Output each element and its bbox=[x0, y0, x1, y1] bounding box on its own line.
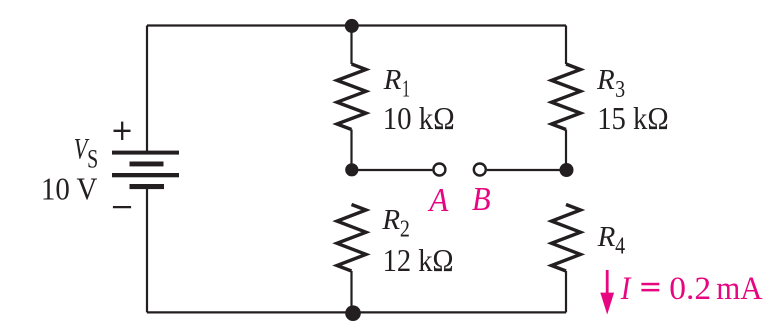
svg-text:R: R bbox=[597, 221, 616, 253]
junction dot bottom middle bbox=[345, 305, 361, 321]
svg-text:10 kΩ: 10 kΩ bbox=[383, 100, 455, 136]
wire middle branch top bbox=[350, 26, 352, 65]
resistor R1 zigzag bbox=[337, 64, 366, 130]
label R3 bbox=[596, 64, 625, 103]
wire R1 to node bbox=[350, 130, 352, 171]
label R1 bbox=[383, 64, 410, 102]
svg-text:I: I bbox=[620, 271, 632, 307]
resistor R3 zigzag bbox=[552, 64, 581, 130]
current arrow I bbox=[600, 270, 614, 315]
wire bottom rail bbox=[147, 311, 566, 313]
terminal A open circle bbox=[433, 164, 445, 176]
svg-text:B: B bbox=[472, 181, 491, 218]
svg-text:S: S bbox=[87, 145, 98, 174]
battery plus sign bbox=[114, 122, 131, 140]
wire terminal B to right branch bbox=[487, 169, 566, 171]
svg-text:15 kΩ: 15 kΩ bbox=[597, 100, 669, 136]
label R4 bbox=[597, 221, 626, 260]
wire left branch lower bbox=[146, 188, 148, 312]
junction dot top middle bbox=[345, 19, 359, 33]
resistor R4 zigzag bbox=[552, 205, 581, 272]
svg-text:R: R bbox=[596, 64, 615, 96]
wire R2 to bottom rail bbox=[350, 271, 352, 312]
junction dot middle node bbox=[345, 163, 358, 176]
svg-text:12 kΩ: 12 kΩ bbox=[383, 242, 454, 278]
svg-text:1: 1 bbox=[402, 76, 410, 102]
svg-text:R: R bbox=[383, 64, 402, 96]
label VS bbox=[74, 133, 99, 174]
svg-text:mA: mA bbox=[716, 271, 762, 307]
resistor R2 zigzag bbox=[337, 205, 366, 272]
svg-text:2: 2 bbox=[400, 217, 410, 243]
wire node to terminal A bbox=[352, 169, 433, 171]
battery VS plates bbox=[112, 151, 179, 190]
svg-text:A: A bbox=[428, 182, 449, 219]
wire R4 to bottom rail bbox=[565, 271, 567, 312]
label R2 bbox=[381, 204, 410, 243]
svg-text:10 V: 10 V bbox=[41, 171, 98, 207]
wire right branch top bbox=[565, 26, 567, 65]
label I = 0.2 mA bbox=[620, 271, 763, 307]
wire R3 to node bbox=[565, 130, 567, 171]
svg-text:0.2: 0.2 bbox=[669, 271, 711, 307]
svg-text:4: 4 bbox=[615, 234, 625, 260]
terminal B open circle bbox=[474, 164, 486, 176]
battery minus sign bbox=[113, 206, 131, 208]
junction dot right node bbox=[560, 163, 574, 177]
svg-text:R: R bbox=[381, 204, 400, 236]
wire left branch upper bbox=[146, 26, 148, 153]
wire top rail bbox=[147, 24, 566, 26]
